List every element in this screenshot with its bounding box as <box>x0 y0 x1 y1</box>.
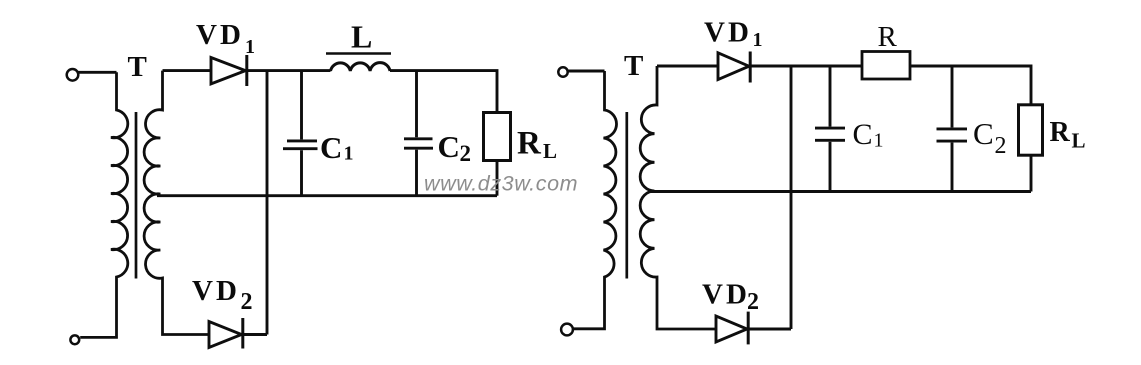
svg-text:L: L <box>543 139 557 163</box>
svg-text:L: L <box>351 19 372 55</box>
svg-text:2: 2 <box>460 141 472 166</box>
svg-text:2: 2 <box>995 133 1007 159</box>
svg-text:1: 1 <box>344 143 354 165</box>
svg-text:C: C <box>973 116 994 151</box>
svg-text:VD: VD <box>192 275 240 307</box>
svg-text:C: C <box>438 129 460 164</box>
svg-text:R: R <box>1050 117 1071 148</box>
svg-text:2: 2 <box>241 289 253 315</box>
svg-text:C: C <box>320 130 342 165</box>
svg-text:T: T <box>128 51 147 83</box>
svg-text:www.dz3w.com: www.dz3w.com <box>424 172 578 196</box>
svg-text:1: 1 <box>245 36 255 58</box>
svg-text:1: 1 <box>874 130 884 152</box>
svg-text:L: L <box>1072 129 1086 153</box>
svg-text:T: T <box>624 50 643 82</box>
svg-text:2: 2 <box>747 289 759 315</box>
svg-text:R: R <box>878 21 898 53</box>
svg-text:1: 1 <box>753 29 763 51</box>
svg-text:R: R <box>517 125 542 161</box>
svg-text:VD: VD <box>702 278 750 310</box>
svg-text:VD: VD <box>196 19 244 51</box>
svg-text:VD: VD <box>704 17 752 49</box>
svg-text:C: C <box>853 118 873 151</box>
